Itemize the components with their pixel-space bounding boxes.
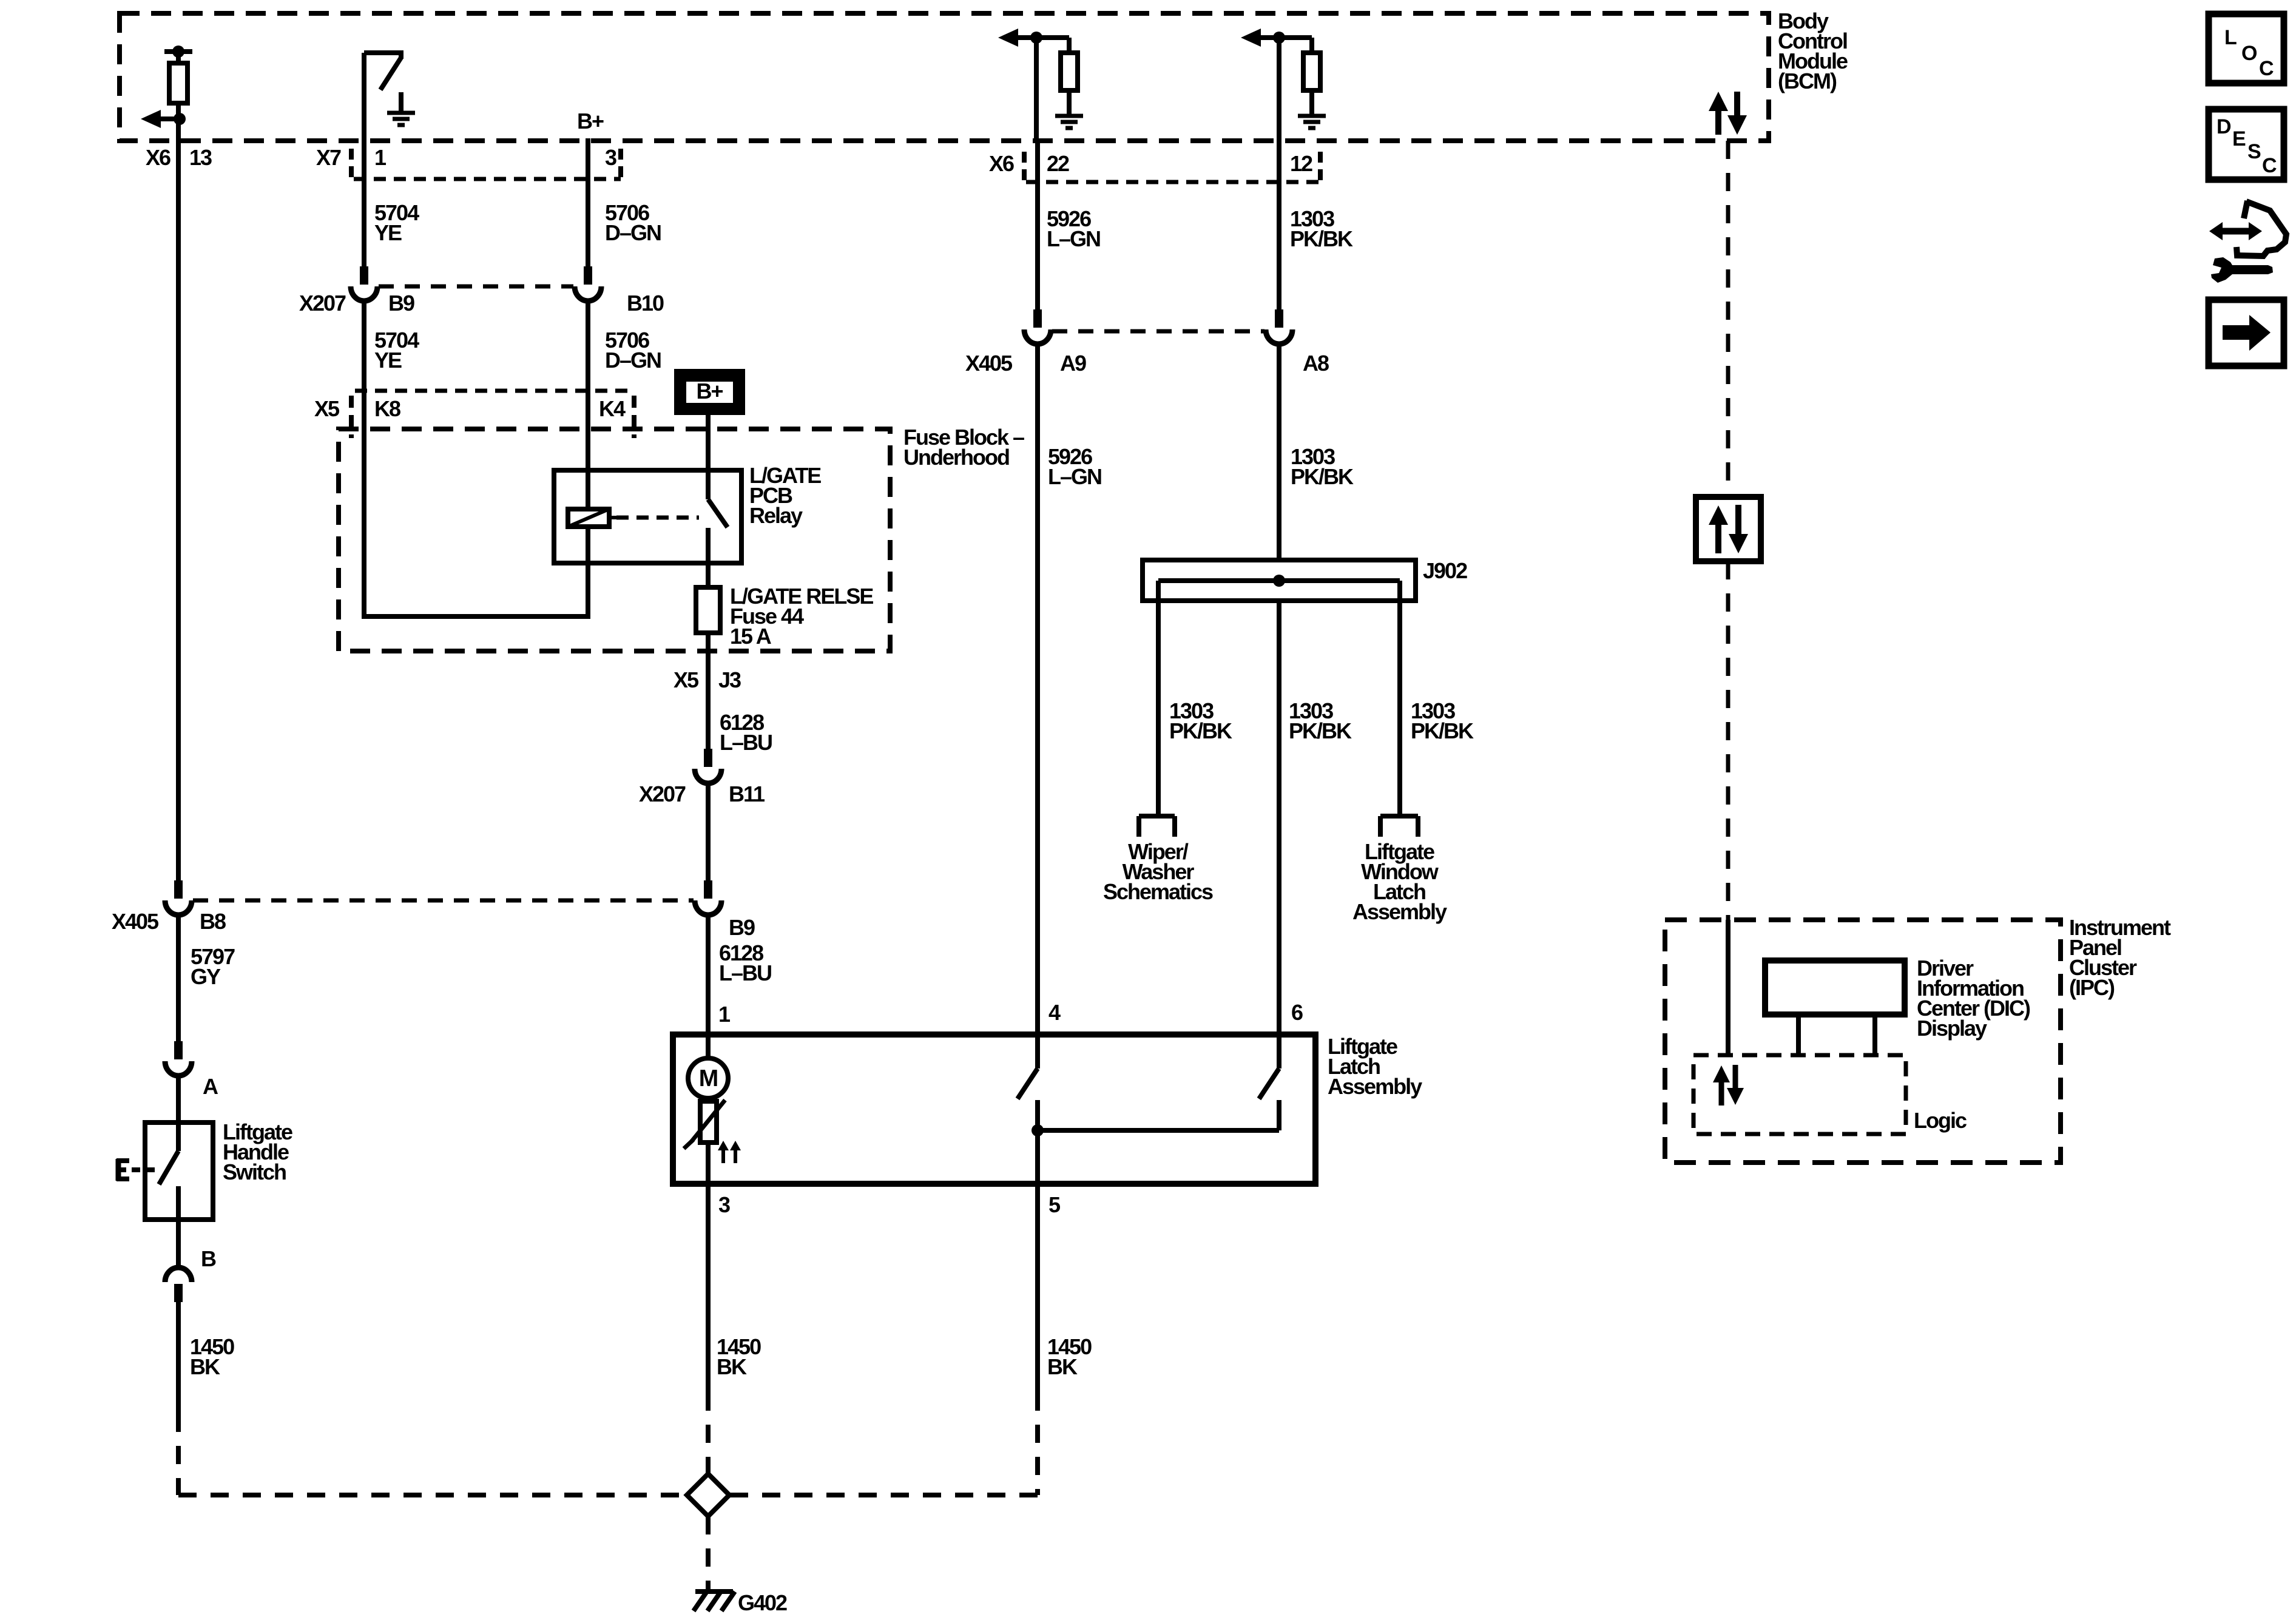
svg-text:L–BU: L–BU [720, 730, 772, 755]
svg-text:X5: X5 [314, 396, 340, 421]
connector X405 B9 [704, 880, 712, 899]
svg-text:X207: X207 [299, 291, 346, 316]
svg-text:M: M [699, 1065, 718, 1092]
svg-text:X405: X405 [112, 909, 159, 934]
svg-text:13: 13 [189, 145, 212, 170]
svg-text:S: S [2247, 140, 2261, 163]
relay actuation dashed link [616, 516, 699, 520]
wire: J902 left branch 1303 PK/BK [1156, 601, 1161, 816]
ground: below pull-up X6-22 [1067, 90, 1072, 116]
wires: DIC display legs [1796, 1014, 1801, 1055]
connector X405 A8 [1275, 309, 1283, 328]
svg-text:YE: YE [374, 348, 402, 373]
wire: dashed ground run left [176, 1414, 181, 1495]
svg-text:B+: B+ [696, 379, 723, 403]
svg-text:PK/BK: PK/BK [1291, 464, 1354, 489]
wire: latch switches common [1038, 1128, 1279, 1133]
wire: B+ to relay common [706, 415, 711, 470]
connector B at handle switch [174, 1284, 183, 1302]
wire: 1303 PK/BK from BCM X6-12 to X405 A8 [1277, 141, 1281, 311]
svg-text:X6: X6 [146, 145, 171, 170]
module box: Body Control Module (BCM), dashed outline [120, 13, 1769, 141]
icon box right-arrow [2209, 300, 2284, 366]
mechanical link symbol E with dashes [116, 1159, 121, 1181]
bus: dashed serial data line lower [1726, 561, 1730, 920]
svg-text:1: 1 [718, 1002, 731, 1027]
svg-text:D–GN: D–GN [605, 348, 661, 373]
svg-text:(BCM): (BCM) [1778, 69, 1837, 93]
svg-text:5: 5 [1048, 1192, 1061, 1217]
wire: jog to relay coil return [364, 614, 588, 619]
connector line X405 A9-A8 [1052, 329, 1264, 334]
svg-text:B: B [201, 1246, 216, 1271]
wire: 5706 D-GN from B10 to relay coil [586, 300, 590, 510]
svg-text:YE: YE [374, 220, 402, 245]
wire: handle switch to pin B [176, 1220, 181, 1266]
svg-text:Switch: Switch [223, 1160, 286, 1184]
svg-text:PK/BK: PK/BK [1289, 718, 1352, 743]
wire: dashed to G402 [706, 1516, 711, 1591]
svg-text:6: 6 [1291, 1000, 1303, 1025]
svg-text:Logic: Logic [1914, 1108, 1967, 1133]
PTC thermistor in latch assembly [706, 1098, 711, 1101]
svg-text:B9: B9 [729, 915, 755, 940]
connector line X7 underline [354, 177, 621, 181]
connector X207 B10 [584, 266, 592, 285]
off-page terminal to liftgate window latch [1380, 814, 1418, 819]
wire: J902 right branch 1303 PK/BK [1397, 601, 1402, 816]
wire: 5797 GY from BCM X6-13 to X405 B8 [176, 141, 181, 881]
switch: latch ajar switch (pin 4) [1035, 1035, 1040, 1068]
ground: BCM switch ground [399, 92, 403, 113]
svg-text:15 A: 15 A [730, 624, 772, 649]
svg-text:E: E [2232, 127, 2246, 150]
wire: 5797 GY from B8 to handle switch pin A [176, 914, 181, 1045]
svg-text:BK: BK [190, 1354, 220, 1379]
bus: dashed serial data line upper [1726, 141, 1730, 497]
component box: L/GATE PCB Relay [554, 470, 741, 563]
signal arrow (left) on wire X6-12 [1260, 35, 1281, 40]
svg-text:B11: B11 [729, 781, 765, 806]
module box: Instrument Panel Cluster (IPC), dashed [1665, 920, 2061, 1163]
junction dot on wire X6-13 [174, 113, 186, 125]
svg-text:Underhood: Underhood [903, 445, 1009, 470]
ground G402 chassis symbol [695, 1589, 733, 1594]
wire: 5926 L-GN from A9 to latch pin 4 [1035, 343, 1040, 1035]
junction dot on wire X6-12 [1273, 32, 1285, 44]
wire: dashed ground bus [178, 1493, 686, 1497]
svg-text:K8: K8 [374, 396, 400, 421]
svg-text:A8: A8 [1303, 351, 1329, 376]
svg-text:Display: Display [1917, 1016, 1987, 1041]
svg-text:L: L [2224, 26, 2237, 49]
svg-text:A9: A9 [1060, 351, 1086, 376]
svg-text:12: 12 [1290, 151, 1312, 176]
svg-text:C: C [2262, 154, 2277, 177]
svg-text:BK: BK [717, 1354, 747, 1379]
svg-text:X7: X7 [316, 145, 341, 170]
connector line X6 underline [1026, 180, 1320, 184]
icon box DESC [2209, 109, 2284, 180]
svg-text:L–BU: L–BU [719, 960, 771, 985]
power symbol B+ (bold box) [674, 369, 745, 415]
wire: BCM X6-13 vertical inside BCM [176, 103, 181, 141]
junction dot J902 [1273, 575, 1285, 587]
resistor: BCM pull-up branch on X6-22 [1034, 35, 1069, 40]
svg-text:Schematics: Schematics [1103, 879, 1213, 904]
svg-text:4: 4 [1048, 1000, 1061, 1025]
svg-text:22: 22 [1047, 151, 1069, 176]
svg-text:X405: X405 [965, 351, 1013, 376]
connector X405 A9 [1033, 309, 1042, 328]
connector X207 B11 [704, 749, 712, 767]
wire: dashed to splice diamond [706, 1393, 711, 1475]
wire: 5926 L-GN from BCM X6-22 to X405 A9 [1035, 141, 1040, 311]
svg-text:B9: B9 [388, 291, 414, 316]
svg-text:L–GN: L–GN [1048, 464, 1101, 489]
svg-text:B10: B10 [627, 291, 664, 316]
wire: 1303 PK/BK from J902 to latch pin 6 [1277, 601, 1281, 1035]
wire: 6128 L-BU from B9 to latch pin 1 [706, 914, 711, 1035]
svg-text:3: 3 [718, 1192, 730, 1217]
wire: fuse 44 to X5 J3 [706, 633, 711, 752]
svg-text:G402: G402 [738, 1590, 787, 1615]
svg-text:C: C [2259, 57, 2274, 80]
signal arrow (left) on wire X6-13 [160, 116, 181, 121]
svg-text:Relay: Relay [749, 503, 803, 528]
wire: 6128 L-BU from B11 to X405 B9 [706, 783, 711, 881]
component box: Liftgate Latch Assembly [673, 1035, 1315, 1184]
resistor: BCM pull-up on X6-13 [176, 52, 181, 64]
wire: into handle switch [176, 1075, 181, 1122]
relay contact switch [706, 470, 711, 499]
icon box LOC [2209, 14, 2284, 83]
wire: dashed ground run right [1035, 1393, 1040, 1495]
wire: 5706 D-GN from B+ down to X207 B10 [586, 138, 590, 267]
connector bracket X7 [349, 149, 354, 177]
switch: BCM ground switch on X7-1 [364, 50, 401, 55]
svg-text:K4: K4 [599, 396, 626, 421]
svg-text:GY: GY [191, 964, 221, 989]
svg-text:PK/BK: PK/BK [1411, 718, 1474, 743]
svg-text:D–GN: D–GN [605, 220, 661, 245]
splice pack J902 inner bus [1158, 578, 1400, 583]
relay coil [568, 509, 609, 527]
wire: BCM X7-1 vertical inside BCM [362, 53, 366, 141]
svg-text:X5: X5 [674, 667, 699, 692]
splice diamond [687, 1474, 729, 1516]
svg-text:PK/BK: PK/BK [1290, 226, 1353, 251]
fuse: L/GATE RELSE Fuse 44 15 A [696, 587, 720, 633]
component box: Driver Information Center (DIC) Display [1765, 960, 1905, 1014]
connector line X405 B8-B9 [193, 899, 694, 903]
module box: Fuse Block - Underhood, dashed [339, 429, 890, 651]
wire: serial data inside IPC [1726, 920, 1730, 1055]
connector bracket X6 right [1022, 152, 1027, 180]
svg-text:(IPC): (IPC) [2069, 975, 2115, 1000]
resistor: BCM pull-up branch on X6-12 [1277, 35, 1312, 40]
switch: latch ajar switch (pin 6) [1277, 1035, 1281, 1068]
junction dot latch common [1032, 1124, 1044, 1136]
svg-text:B8: B8 [200, 909, 226, 934]
junction dot on wire X6-22 [1030, 32, 1042, 44]
wire: latch common to pin 5 [1035, 1130, 1040, 1184]
connector X405 B8 (male/female) [174, 880, 183, 899]
wire: relay to fuse 44 [706, 563, 711, 589]
off-page terminal to wiper/washer [1139, 814, 1175, 819]
connector line X5 underline [355, 389, 634, 393]
svg-text:1: 1 [374, 145, 387, 170]
logic box dashed [1693, 1055, 1906, 1134]
icon: boxed up/down arrows (serial data) [1696, 497, 1761, 561]
switch: liftgate handle switch blade [176, 1122, 181, 1151]
svg-text:Assembly: Assembly [1352, 899, 1447, 924]
icon: logic up/down arrows [1719, 1079, 1724, 1106]
wire: 1450 BK from latch pin 3 [706, 1184, 711, 1393]
svg-text:3: 3 [605, 145, 616, 170]
svg-text:PK/BK: PK/BK [1169, 718, 1232, 743]
connector A at handle switch [174, 1041, 183, 1059]
connector bracket X5 K8/K4 [349, 396, 354, 438]
wire: BCM X6-22 vertical inside BCM [1034, 38, 1039, 141]
svg-text:J3: J3 [718, 667, 741, 692]
svg-text:O: O [2241, 42, 2257, 65]
icon: BCM serial data up/down arrows [1715, 107, 1721, 135]
component box: Liftgate Handle Switch [145, 1122, 213, 1220]
svg-text:Assembly: Assembly [1328, 1074, 1422, 1099]
wire: 1450 BK from latch pin 5 [1035, 1184, 1040, 1393]
signal arrow (left) on wire X6-22 [1017, 35, 1039, 40]
wire: motor to pin 3 [706, 1143, 711, 1184]
svg-text:A: A [203, 1074, 218, 1099]
svg-text:J902: J902 [1423, 558, 1467, 583]
svg-text:B+: B+ [577, 109, 604, 133]
svg-text:X207: X207 [639, 781, 686, 806]
wire: BCM X6-12 vertical inside BCM [1277, 38, 1281, 141]
wire: 1450 BK below pin B [176, 1300, 181, 1414]
arrows on PTC [721, 1147, 725, 1163]
svg-text:X6: X6 [989, 151, 1014, 176]
svg-text:D: D [2217, 115, 2232, 138]
svg-text:L–GN: L–GN [1047, 226, 1100, 251]
ground: below pull-up X6-12 [1309, 90, 1314, 116]
motor M in latch assembly [706, 1035, 711, 1059]
node: BCM internal terminal bar on wire X6-13 [164, 49, 192, 54]
wire: 5704 YE from BCM X7-1 to X207 B9 [362, 141, 366, 267]
svg-text:BK: BK [1047, 1354, 1078, 1379]
connector line X207 B9-B10 [379, 285, 573, 289]
wire: 1303 PK/BK from A8 to J902 [1277, 343, 1281, 560]
connector X207 B9 [360, 266, 368, 285]
icon: diagnostic hand with two-way arrow and wrench [2244, 201, 2247, 218]
splice pack J902 outer box [1143, 560, 1416, 601]
wire: 5704 YE from B9 to fuse block K8 [362, 300, 366, 619]
